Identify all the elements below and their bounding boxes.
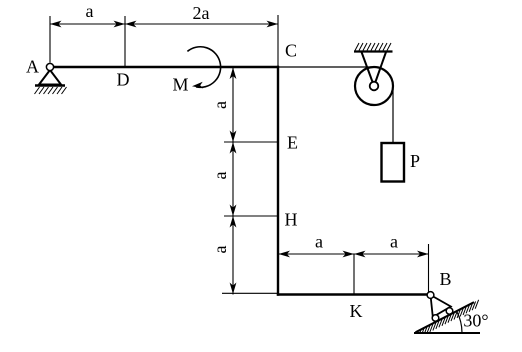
extension line at D (124, 16, 126, 66)
svg-text:a: a (315, 232, 323, 252)
svg-text:C: C (285, 41, 297, 61)
tick at bottom level (222, 292, 278, 294)
svg-text:30°: 30° (463, 311, 488, 331)
inclined surface (416, 302, 475, 332)
svg-text:K: K (350, 301, 363, 321)
roller right (446, 308, 453, 315)
tick at H level (224, 215, 278, 217)
pulley bracket (354, 52, 393, 87)
vertical dimension chain C-E-H-bottom (230, 67, 237, 295)
svg-text:a: a (210, 101, 230, 109)
tick at E level (224, 141, 278, 143)
incline hatching (420, 300, 479, 333)
wire bottom member to B (277, 293, 429, 295)
svg-text:H: H (285, 210, 298, 230)
pulley axle (370, 82, 379, 91)
roller left (432, 315, 439, 322)
svg-text:a: a (390, 232, 398, 252)
svg-text:a: a (210, 246, 230, 254)
extension line above C (277, 15, 279, 66)
pin support A (35, 63, 65, 85)
svg-text:2a: 2a (193, 3, 210, 23)
pin at B (427, 292, 434, 299)
svg-text:A: A (26, 57, 39, 77)
svg-text:a: a (86, 1, 94, 21)
svg-text:P: P (410, 151, 420, 171)
dimension 2a (D to C) (125, 3, 278, 27)
wire beam A-C (52, 66, 279, 68)
svg-text:D: D (117, 70, 130, 90)
30 degree arc (457, 312, 462, 333)
ground base line (414, 332, 480, 334)
svg-text:a: a (210, 172, 230, 180)
hatching under A support (35, 87, 67, 94)
weight P (382, 143, 405, 182)
svg-text:B: B (439, 269, 451, 289)
moment M arc (187, 47, 220, 89)
extension line at K (353, 254, 355, 294)
roller support B triangle (431, 295, 451, 317)
bottom dimension a (K to B) (354, 232, 429, 258)
extension line at A (49, 16, 51, 63)
extension line at B (428, 244, 430, 292)
ceiling hatching above pulley (355, 43, 391, 51)
rope pulley to weight (392, 86, 394, 143)
wire member C-bottom (277, 66, 279, 296)
bottom dimension a (member to K) (278, 232, 354, 258)
svg-text:E: E (287, 133, 298, 153)
svg-text:M: M (172, 75, 188, 95)
dimension a (A to D) (50, 1, 125, 27)
pulley wheel (355, 67, 393, 105)
rope C to pulley (279, 66, 374, 68)
